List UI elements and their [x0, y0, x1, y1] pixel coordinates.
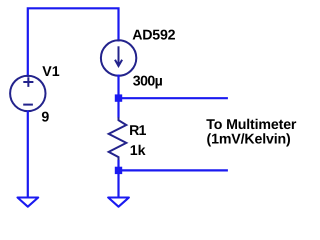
wire V1 to ground — [27, 111, 29, 198]
resistor R1 — [109, 117, 127, 161]
node A junction — [115, 94, 122, 101]
wire node A to right — [120, 97, 228, 99]
svg-text:AD592: AD592 — [132, 28, 175, 44]
svg-text:300µ: 300µ — [133, 73, 163, 89]
wire I1 to node A — [117, 75, 119, 97]
current source U1 AD592 — [101, 40, 136, 75]
svg-text:V1: V1 — [42, 64, 59, 80]
wire node B to right — [120, 169, 228, 171]
ground (left) — [18, 198, 39, 207]
node B junction — [115, 167, 122, 174]
wire R1 to node B — [117, 160, 119, 169]
svg-text:1k: 1k — [130, 143, 146, 159]
svg-text:9: 9 — [41, 109, 49, 125]
wire node A to R1 — [117, 100, 119, 118]
voltage source V1 — [10, 76, 45, 111]
ground (right) — [108, 198, 129, 207]
svg-text:(1mV/Kelvin): (1mV/Kelvin) — [207, 131, 292, 147]
svg-text:R1: R1 — [129, 123, 146, 139]
wire node B to ground — [117, 173, 119, 198]
wire top rail V1 to I1 — [28, 8, 119, 77]
